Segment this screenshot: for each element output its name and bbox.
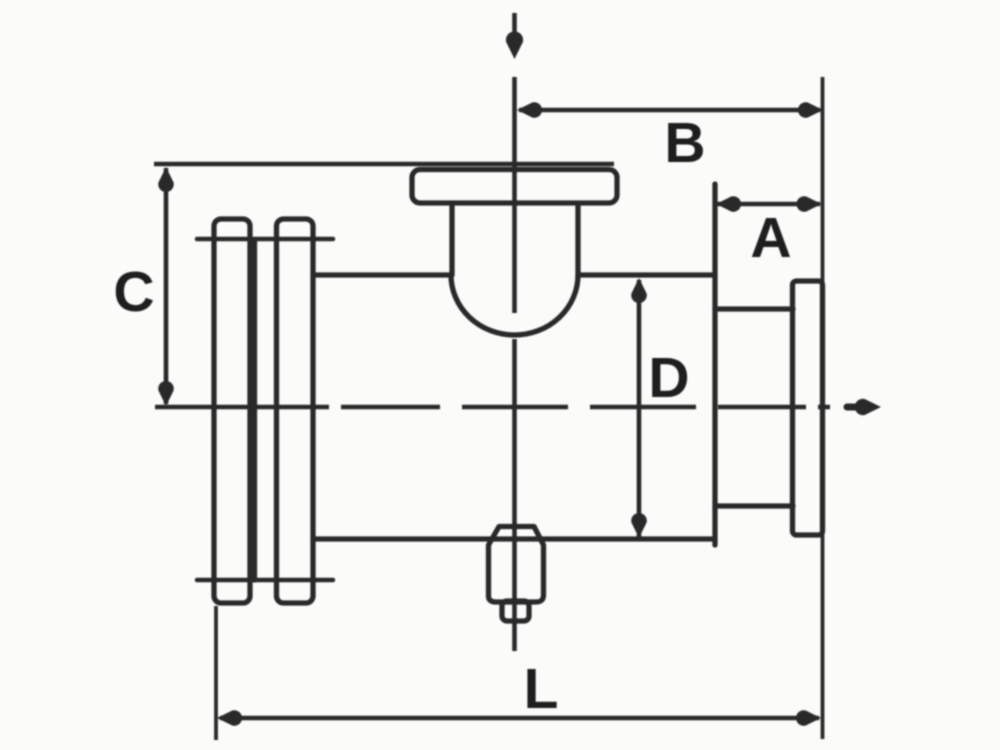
horizontal centerline dash 1 <box>155 405 329 410</box>
A right arrowhead <box>796 196 821 212</box>
B left arrowhead <box>517 102 542 118</box>
B dimension line <box>519 108 820 113</box>
horizontal centerline dash 2 <box>341 405 440 410</box>
L dimension line <box>220 716 819 721</box>
body top edge right segment <box>580 272 715 277</box>
A left arrowhead <box>716 196 741 212</box>
svg-text:D: D <box>648 346 689 410</box>
right neck top edge <box>715 306 793 311</box>
svg-text:A: A <box>750 206 791 270</box>
L left extension line <box>214 606 218 740</box>
right extension line <box>821 77 825 739</box>
drain plug <box>489 527 544 603</box>
top axis stub <box>512 13 517 38</box>
top neck right edge <box>575 203 580 275</box>
left flange plate 1 <box>214 219 250 603</box>
D dimension line <box>637 280 642 537</box>
D top arrowhead <box>631 278 647 303</box>
left flange bottom tick <box>197 578 333 583</box>
L right arrowhead <box>796 710 821 726</box>
horizontal centerline dash 4 <box>590 405 696 410</box>
right axis stub <box>847 404 857 411</box>
C bottom arrowhead <box>158 381 174 406</box>
vertical centerline upper segment <box>512 77 517 313</box>
D bottom arrowhead <box>631 513 647 538</box>
horizontal centerline dash 3 <box>462 405 568 410</box>
top axis arrowhead <box>506 31 523 59</box>
C extension line top <box>154 162 614 167</box>
drain cap <box>502 601 529 621</box>
body top edge left segment <box>313 272 450 277</box>
A dimension line <box>717 202 820 207</box>
left flange face line <box>252 240 257 580</box>
C top arrowhead <box>158 167 174 192</box>
horizontal centerline dash 6 <box>818 405 830 410</box>
svg-text:C: C <box>113 260 154 324</box>
B right arrowhead <box>798 102 823 118</box>
right axis arrowhead <box>855 399 881 415</box>
dome arc <box>451 275 578 335</box>
top neck left edge <box>449 203 454 275</box>
svg-text:B: B <box>664 111 705 175</box>
C dimension line <box>164 168 169 404</box>
vertical centerline lower segment <box>512 339 517 651</box>
right neck bottom edge <box>715 503 793 508</box>
left flange plate 2 <box>277 219 314 603</box>
right end cap <box>793 281 823 535</box>
svg-text:L: L <box>524 657 559 721</box>
body bottom edge <box>313 536 715 541</box>
L left arrowhead <box>217 710 242 726</box>
top flange <box>412 170 617 204</box>
left flange top tick <box>197 237 333 242</box>
horizontal centerline dash 5 <box>718 405 806 410</box>
body right face <box>712 184 717 545</box>
